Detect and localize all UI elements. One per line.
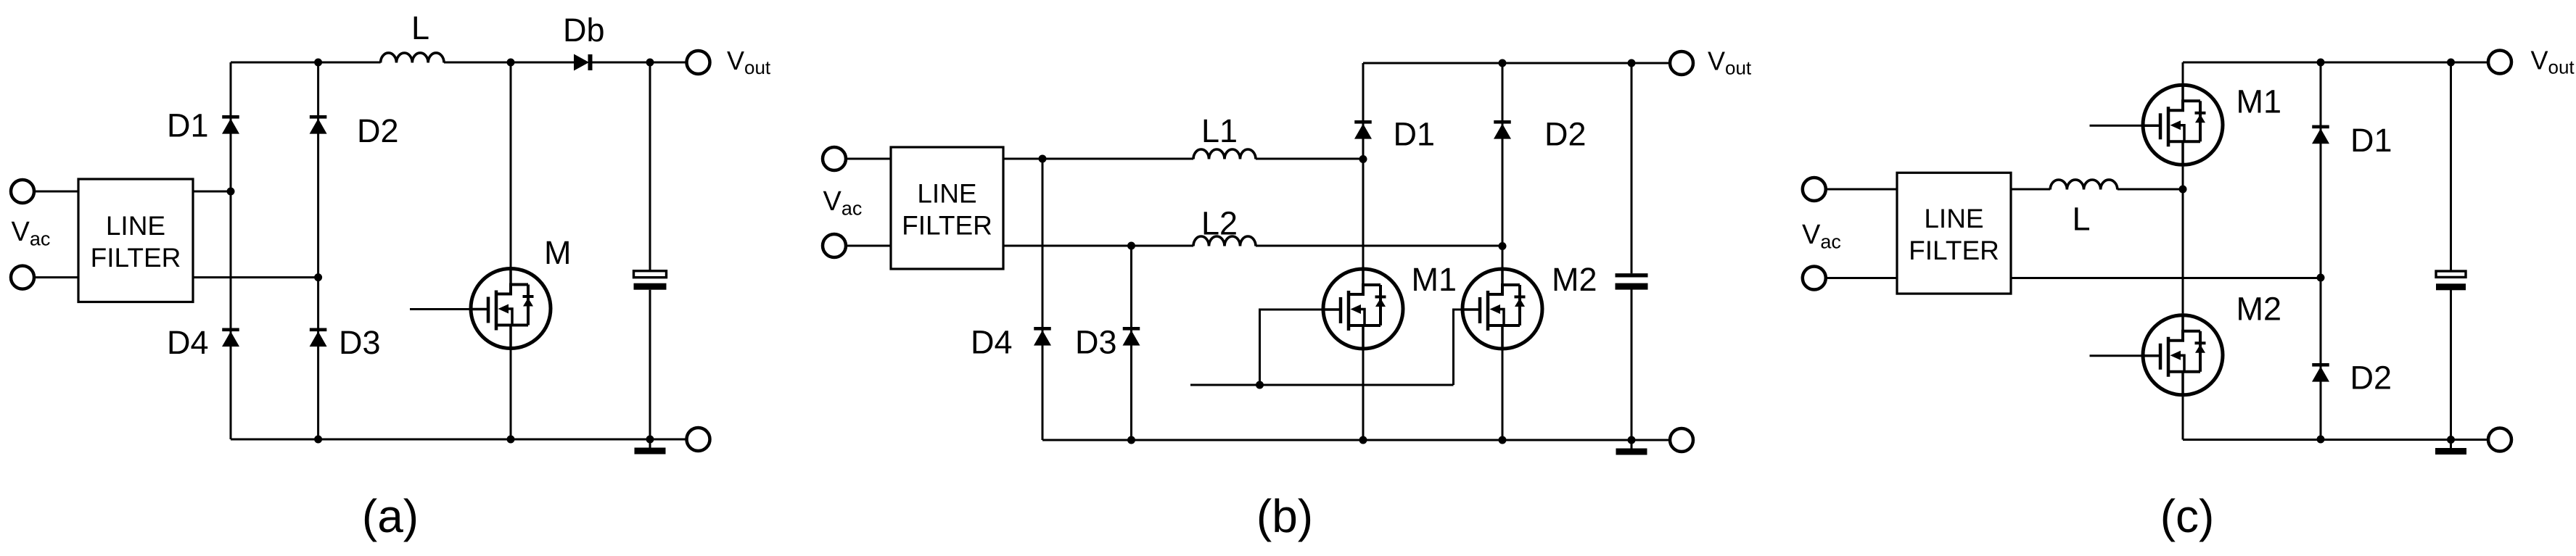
svg-text:D4: D4 — [971, 324, 1013, 361]
line filter box (a) — [78, 179, 193, 302]
svg-text:M1: M1 — [2236, 83, 2282, 120]
wire left bridge leg (a) — [230, 62, 232, 439]
svg-text:LINE: LINE — [1924, 204, 1983, 233]
capacitor C (b) — [1616, 273, 1648, 290]
wire M1 gate lead (b) — [1260, 310, 1322, 385]
dot bottom capacitor node (c) — [2447, 436, 2455, 444]
wire M1 gate lead (c) — [2090, 125, 2141, 127]
svg-text:FILTER: FILTER — [91, 243, 181, 273]
dot switch node (c) — [2179, 186, 2187, 194]
line filter box (c) — [1897, 173, 2011, 294]
wire gate drive line (b) — [1190, 384, 1454, 386]
dot top of right leg (a) — [314, 59, 322, 67]
terminal Vac bottom (b) — [823, 234, 846, 257]
svg-text:L: L — [2073, 201, 2091, 238]
wire M2 gate lead (b) — [1454, 310, 1461, 385]
terminal Vout top (c) — [2488, 51, 2511, 74]
svg-text:Db: Db — [563, 12, 605, 49]
wire capacitor bottom (b) — [1631, 290, 1633, 441]
MOSFET M2 (b) — [1461, 267, 1543, 351]
wire top rail (b) — [1363, 62, 1671, 65]
wire Vac bottom to line filter (c) — [1825, 277, 1897, 279]
dot bottom M1 source (b) — [1359, 436, 1367, 444]
terminal Vout top (b) — [1670, 51, 1693, 75]
svg-text:D1: D1 — [1394, 115, 1436, 152]
svg-text:LINE: LINE — [106, 211, 165, 241]
MOSFET M1 (c) — [2141, 83, 2223, 167]
dot bottom capacitor node (b) — [1628, 436, 1636, 444]
dot M2 drain node (b) — [1499, 242, 1507, 250]
wire MOSFET source (a) — [510, 350, 512, 439]
wire L2 to M2 drain node (b) — [1256, 245, 1502, 247]
wire M1 source (b) — [1362, 351, 1365, 441]
diode D2 (a) — [310, 115, 327, 134]
wire Db to output node (a) — [593, 62, 688, 64]
wire capacitor bottom (c) — [2450, 290, 2452, 440]
svg-text:D3: D3 — [1075, 324, 1117, 361]
ground (a) — [635, 439, 666, 455]
dot bottom right leg (a) — [314, 436, 322, 444]
wire line filter to L2 (b) — [1003, 245, 1193, 247]
svg-text:FILTER: FILTER — [1909, 236, 1999, 265]
diode Db (a) — [574, 54, 593, 71]
svg-text:D2: D2 — [2350, 359, 2392, 396]
svg-text:M2: M2 — [2236, 291, 2282, 328]
wire Vac top to line filter (b) — [846, 158, 892, 160]
wire top rail left segment (a) — [231, 62, 381, 64]
dot top D2 branch (b) — [1499, 59, 1507, 67]
diode D1 (c) — [2312, 125, 2329, 144]
line filter box (b) — [891, 147, 1003, 269]
terminal Vac top (b) — [823, 147, 846, 170]
dot bottom capacitor node (a) — [646, 436, 654, 444]
wire D4 branch (b) — [1042, 159, 1044, 440]
dot bottom M2 source (b) — [1499, 436, 1507, 444]
capacitor C (a) — [634, 271, 667, 290]
dot output node top (a) — [646, 59, 654, 67]
svg-text:FILTER: FILTER — [902, 210, 992, 240]
wire Vac top to line filter (a) — [34, 191, 79, 193]
dot bottom diode branch (c) — [2317, 436, 2325, 444]
diode D3 (a) — [310, 328, 327, 347]
inductor L (c) — [2050, 180, 2118, 190]
diode D1 (b) — [1354, 120, 1372, 139]
diode D3 (b) — [1123, 327, 1140, 346]
node B dot (a) — [314, 273, 322, 281]
diode D2 (b) — [1494, 120, 1511, 139]
terminal Vac top (c) — [1803, 178, 1826, 201]
wire Vac bottom to line filter (b) — [846, 245, 892, 247]
svg-text:M1: M1 — [1412, 261, 1457, 298]
dot gate junction (b) — [1256, 381, 1264, 389]
wire bottom rail (b) — [1042, 439, 1671, 441]
ground (c) — [2435, 440, 2466, 455]
wire line filter to node B (a) — [193, 276, 318, 278]
diode D4 (a) — [222, 328, 239, 347]
wire capacitor top (c) — [2450, 62, 2452, 271]
dot top capacitor node (b) — [1628, 59, 1636, 67]
dot D3 branch node (b) — [1127, 242, 1135, 250]
wire M2 source (c) — [2182, 397, 2184, 439]
terminal output bottom (c) — [2488, 428, 2511, 452]
wire MOSFET drain (a) — [510, 62, 512, 267]
inductor L (a) — [381, 53, 444, 63]
MOSFET M1 (b) — [1322, 267, 1404, 351]
wire line filter to L1 (b) — [1003, 158, 1193, 160]
svg-text:M: M — [544, 234, 572, 271]
wire diode branch (c) — [2320, 62, 2322, 440]
capacitor C (c) — [2436, 271, 2466, 290]
wire Vac bottom to line filter (a) — [34, 276, 79, 278]
inductor L2 (b) — [1193, 236, 1256, 246]
diode D1 (a) — [222, 115, 239, 134]
wire right bridge leg (a) — [317, 62, 319, 439]
wire M1 source to switch node (c) — [2182, 167, 2184, 189]
wire inductor to boost node (a) — [444, 62, 574, 64]
wire bottom rail (c) — [2183, 439, 2489, 441]
wire capacitor top (b) — [1631, 63, 1633, 273]
svg-text:L: L — [411, 9, 429, 46]
svg-text:L1: L1 — [1201, 112, 1238, 149]
svg-text:(b): (b) — [1256, 490, 1313, 542]
dot boost node (a) — [507, 59, 515, 67]
dot bottom MOSFET source (a) — [507, 436, 515, 444]
svg-text:D4: D4 — [167, 324, 209, 361]
wire L1 to M1 drain node (b) — [1256, 158, 1363, 160]
wire M2 source (b) — [1502, 351, 1504, 441]
wire line filter to node A (a) — [193, 191, 231, 193]
diode D2 (c) — [2312, 363, 2329, 382]
terminal Vac bottom (c) — [1803, 267, 1826, 290]
diode D4 (b) — [1034, 327, 1051, 346]
ground (b) — [1616, 440, 1647, 455]
dot neutral to diode midpoint (c) — [2317, 274, 2325, 282]
wire bottom rail (a) — [231, 439, 687, 441]
terminal Vout top (a) — [687, 51, 710, 74]
wire MOSFET gate lead (a) — [410, 308, 469, 310]
wire line filter to L (c) — [2011, 188, 2050, 191]
wire D3 branch (b) — [1130, 246, 1132, 440]
inductor L1 (b) — [1193, 149, 1256, 159]
dot M1 drain node (b) — [1359, 155, 1367, 163]
terminal output bottom (a) — [687, 428, 710, 451]
svg-text:D1: D1 — [2350, 122, 2392, 159]
wire Vac top to line filter (c) — [1825, 188, 1897, 191]
wire D2/M2 branch upper (b) — [1502, 63, 1504, 267]
svg-text:(c): (c) — [2160, 490, 2215, 542]
svg-text:D3: D3 — [339, 324, 381, 361]
wire D1/M1 branch upper (b) — [1362, 63, 1365, 267]
dot D4 branch node (b) — [1039, 155, 1047, 163]
wire neutral line (c) — [2011, 277, 2321, 279]
terminal output bottom (b) — [1670, 428, 1693, 452]
dot top capacitor node (c) — [2447, 59, 2455, 67]
svg-text:(a): (a) — [362, 490, 419, 542]
svg-text:M2: M2 — [1552, 261, 1597, 298]
svg-text:LINE: LINE — [917, 178, 976, 208]
wire L to switch node (c) — [2118, 188, 2183, 191]
wire switch node to M2 drain (c) — [2182, 189, 2184, 313]
svg-text:D1: D1 — [167, 107, 209, 144]
terminal Vac bottom (a) — [11, 266, 34, 289]
MOSFET M2 (c) — [2141, 313, 2223, 397]
wire capacitor bottom (a) — [649, 290, 651, 439]
svg-text:D2: D2 — [357, 112, 399, 149]
svg-text:D2: D2 — [1544, 115, 1587, 152]
MOSFET M (a) — [469, 267, 551, 350]
dot bottom D3 branch (b) — [1127, 436, 1135, 444]
terminal Vac top (a) — [11, 180, 34, 203]
wire M2 gate lead (c) — [2090, 354, 2141, 357]
node A dot (a) — [227, 188, 235, 196]
wire top rail (c) — [2183, 62, 2489, 64]
dot top diode branch (c) — [2317, 59, 2325, 67]
wire capacitor top (a) — [649, 62, 651, 271]
wire M1 drain (c) — [2182, 62, 2184, 83]
svg-text:L2: L2 — [1201, 205, 1238, 242]
